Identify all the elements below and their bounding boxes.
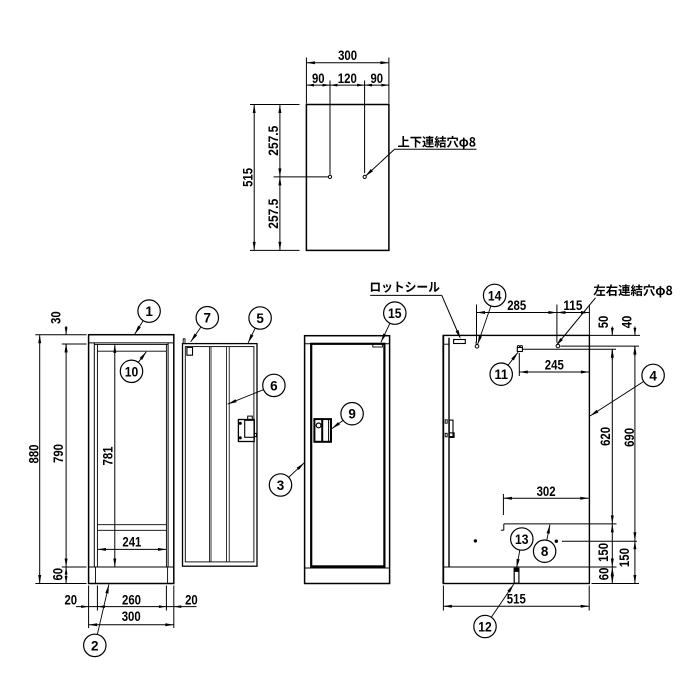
dim 790 [65, 344, 67, 567]
dim 302 [503, 497, 588, 499]
front base inner vertical right [167, 567, 169, 584]
callout 2 (base front) [95, 585, 109, 646]
front top bar bottom line [89, 342, 174, 344]
dim 60 side [611, 567, 613, 584]
body stiffener line 4 [228, 347, 230, 562]
dim 285 [477, 312, 557, 314]
svg-text:90: 90 [371, 70, 384, 86]
svg-text:60: 60 [596, 567, 612, 580]
body stiffener line 3 [226, 347, 228, 562]
svg-text:620: 620 [597, 427, 613, 446]
svg-text:11: 11 [494, 366, 508, 382]
svg-text:13: 13 [515, 531, 529, 547]
svg-text:241: 241 [122, 533, 141, 549]
svg-text:20: 20 [185, 591, 198, 607]
callout 6 (stiffener) [228, 385, 274, 404]
dim 20 left [81, 605, 89, 608]
dim chain 20/260/20 line [76, 606, 197, 608]
door handle inner line [328, 420, 330, 441]
svg-text:8: 8 [541, 543, 549, 559]
side right extension lines [589, 334, 640, 336]
side dot lower [555, 540, 557, 542]
side latch foot [449, 433, 454, 438]
svg-text:7: 7 [204, 310, 212, 326]
door panel outline [311, 344, 384, 567]
dim 260 [97, 605, 105, 608]
svg-text:115: 115 [563, 297, 582, 313]
body lock inner [245, 420, 255, 437]
svg-text:150: 150 [616, 548, 632, 567]
hole 2 (upper-lower connecting hole) [363, 175, 366, 178]
svg-text:6: 6 [270, 377, 278, 393]
dim 115 [557, 312, 590, 314]
dim 300 extension lines [305, 58, 307, 104]
callout 1 (top panel) [135, 311, 149, 334]
callout 9 (handle) [332, 414, 352, 429]
fitting 11 bracket [517, 347, 522, 351]
side dot upper [474, 540, 476, 542]
svg-text:300: 300 [122, 608, 141, 624]
dim 285/115 extension lines [476, 305, 478, 343]
svg-text:90: 90 [312, 70, 325, 86]
svg-text:515: 515 [240, 168, 256, 187]
callout 5 (body) [248, 318, 260, 343]
svg-text:3: 3 [277, 477, 285, 493]
svg-text:257.5: 257.5 [265, 199, 281, 229]
dim 50 (outside arrows) [611, 327, 613, 336]
body view outer outline [183, 344, 258, 567]
top view panel outline [306, 105, 389, 251]
front shelf line upper [97, 524, 166, 526]
front shelf line lower [97, 529, 166, 531]
svg-text:15: 15 [388, 305, 402, 321]
body view inner outline [185, 347, 254, 562]
dim 90 left arrows [306, 84, 314, 87]
callout 4 (side panel) [590, 375, 653, 416]
door view outer outline [305, 336, 390, 584]
body lock top tab [248, 416, 253, 419]
svg-text:515: 515 [507, 590, 526, 606]
front inner-inner vertical right [165, 344, 167, 567]
dim 245 extension line [518, 353, 520, 376]
front bottom extension lines [88, 586, 90, 629]
svg-text:300: 300 [338, 47, 357, 63]
side base top line [443, 566, 589, 568]
front view outer outline [89, 335, 174, 584]
label lot seal [371, 282, 440, 293]
front base inner vertical left [95, 567, 97, 584]
dim 20 right [174, 605, 182, 608]
dim 300 (front width) [89, 624, 174, 626]
callout 8 (shelf) [545, 525, 550, 552]
svg-text:40: 40 [618, 316, 634, 329]
svg-text:1: 1 [145, 303, 153, 319]
door top bar bottom line [305, 343, 390, 345]
body stiffener line 2 [210, 347, 212, 562]
door lot-seal tab [373, 344, 383, 347]
front opening top line [94, 343, 168, 345]
callout 7 (hinge) [191, 318, 208, 342]
side shelf line [504, 523, 590, 525]
dim 690 [634, 346, 636, 541]
mid-height extension line [274, 176, 329, 178]
dim 515 bottom [443, 605, 589, 607]
side view outline [443, 335, 589, 583]
dim 781 (opening height) [114, 344, 116, 567]
callout 3 (door) [281, 463, 305, 485]
front inner vertical right [167, 343, 169, 567]
side lot-seal tab [454, 340, 466, 344]
hole 1 (upper-lower connecting hole) [328, 175, 331, 178]
dim 90 right arrows [365, 84, 373, 87]
dim 90/120/90 line [306, 84, 389, 86]
svg-text:10: 10 [125, 363, 139, 379]
svg-text:690: 690 [621, 428, 637, 447]
svg-text:14: 14 [488, 287, 502, 303]
body hinge bracket [187, 347, 193, 355]
door handle divider [321, 419, 323, 442]
svg-text:260: 260 [122, 591, 141, 607]
base piece 13 [514, 568, 519, 583]
svg-text:150: 150 [595, 543, 611, 562]
svg-text:285: 285 [507, 297, 526, 313]
front inner-inner vertical left [96, 344, 98, 567]
dim 257.5 upper [279, 105, 281, 177]
side shelf left hook [503, 524, 505, 530]
dim 620 [611, 349, 613, 524]
side door-edge dash [443, 343, 449, 345]
hanger hook mark [475, 345, 479, 349]
door base top line [305, 567, 390, 569]
svg-text:50: 50 [595, 316, 611, 329]
door handle outer [314, 419, 331, 442]
callout 14 (hanger hook) [478, 295, 495, 344]
front hat-rail line [97, 350, 166, 352]
dim 515 (left height) [253, 105, 255, 251]
side latch plate [449, 420, 453, 437]
svg-text:781: 781 [100, 446, 116, 465]
door handle keyhole [316, 423, 321, 428]
dim 241 (inner width) [97, 548, 166, 550]
callout 15 (lot seal on door) [381, 313, 395, 342]
svg-text:60: 60 [49, 568, 65, 581]
callout 11 (fitting) [501, 352, 518, 374]
svg-text:302: 302 [537, 483, 556, 499]
svg-text:5: 5 [256, 310, 264, 326]
svg-text:30: 30 [47, 311, 63, 324]
body lock outer [238, 420, 254, 442]
body lock screw top [239, 422, 241, 424]
dim 300 (top width) [306, 62, 389, 64]
callout 10 (hat rail) [132, 352, 147, 372]
front inner vertical left [93, 343, 95, 567]
dim 880 (overall height) [39, 335, 41, 584]
dim 150 outer [634, 541, 636, 584]
hole 2 centerline [364, 81, 366, 174]
body lock screw bottom [239, 437, 241, 439]
svg-text:790: 790 [50, 444, 66, 463]
dim 60 (base height) [65, 567, 67, 584]
left-right connecting hole [556, 344, 560, 348]
body hinge pin [183, 339, 185, 344]
body lock right notch [254, 433, 256, 436]
dim 150 inner [611, 524, 613, 567]
dim 257.5 lower [279, 177, 281, 251]
side door-edge line [448, 338, 450, 567]
callout 12 (base) [485, 584, 514, 626]
body stiffener line 1 [209, 347, 211, 562]
svg-text:4: 4 [649, 367, 657, 383]
svg-text:120: 120 [338, 70, 357, 86]
callout 13 (base piece) [517, 539, 522, 568]
dim 302 extension line [502, 494, 504, 515]
label upper-lower connecting hole φ8 [398, 136, 475, 149]
dim 245 [519, 371, 589, 373]
svg-text:880: 880 [26, 444, 42, 463]
dim 515 extension lines [442, 586, 444, 611]
svg-text:12: 12 [478, 619, 492, 635]
front left extension lines [35, 334, 86, 336]
dim 120 arrows [330, 84, 338, 87]
dim 30 (top margin) [65, 326, 67, 335]
front base top line [89, 566, 174, 568]
svg-text:245: 245 [545, 357, 564, 373]
dim 515 extension lines [250, 104, 300, 106]
dim 40 (outside arrows) [634, 327, 636, 336]
hole 1 centerline [329, 81, 331, 175]
svg-text:20: 20 [65, 591, 78, 607]
svg-text:257.5: 257.5 [265, 126, 281, 156]
label left-right connecting hole φ8 [594, 284, 673, 297]
svg-text:2: 2 [91, 637, 99, 653]
svg-text:9: 9 [348, 406, 356, 422]
